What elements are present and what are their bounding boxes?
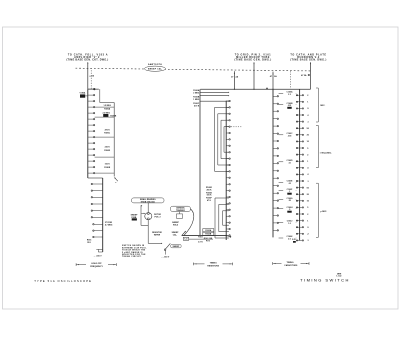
wiper arrow wafer 1 xyxy=(114,177,116,179)
wire - nested link B2 xyxy=(218,204,220,231)
switch contact 5-6 xyxy=(296,127,299,129)
label sweep box xyxy=(171,244,182,247)
switch contact 1-6 xyxy=(88,118,94,120)
svg-text:POS. 2: POS. 2 xyxy=(154,216,160,218)
svg-text:C-in: C-in xyxy=(184,239,188,241)
svg-text:POT.: POT. xyxy=(206,240,211,242)
node - sweep calibration tie point oval xyxy=(145,66,166,71)
switch contact 3-8 xyxy=(226,145,229,147)
svg-text:.01: .01 xyxy=(288,162,291,164)
svg-text:1.0: 1.0 xyxy=(288,223,291,225)
wire - nested link 4 xyxy=(223,127,225,153)
svg-text:μ SEC.: μ SEC. xyxy=(320,211,327,213)
switch contact 4-1 xyxy=(273,95,277,97)
svg-text:TIMING: TIMING xyxy=(210,262,217,264)
svg-text:.25: .25 xyxy=(288,200,291,202)
switch contact 3-14 xyxy=(226,183,229,185)
resistor R180B xyxy=(103,114,108,117)
resistor R162A box xyxy=(203,229,214,232)
switch contact 5-10 xyxy=(296,154,299,156)
switch contact 5-8 xyxy=(296,140,299,142)
resistor R162B box xyxy=(203,232,214,235)
switch contact 4-3 xyxy=(273,110,277,112)
resistor R160B feeder xyxy=(200,95,229,97)
switch contact 1-13 xyxy=(88,160,94,162)
switch contact 3-6 xyxy=(226,132,229,134)
svg-text:→ -150 V: → -150 V xyxy=(93,256,102,258)
svg-text:47 K: 47 K xyxy=(207,199,212,202)
switch contact 1-8 xyxy=(88,130,94,132)
switch contact 1-2 xyxy=(88,94,94,96)
svg-text:100 K: 100 K xyxy=(206,195,212,197)
switch contact 1-4 xyxy=(88,106,94,108)
terminal block to V183A xyxy=(80,94,85,97)
svg-text:2.2 MEG: 2.2 MEG xyxy=(102,113,110,115)
switch contact 5-22 xyxy=(296,233,299,235)
wire - main horizontal bus xyxy=(200,88,310,90)
bracket - holdoff frequency xyxy=(76,264,86,266)
switch contact 3-16 xyxy=(226,196,229,198)
switch contact 3-10 xyxy=(226,158,229,160)
switch contact 5-21 xyxy=(296,226,299,228)
switch contact 4-15 xyxy=(273,200,277,202)
switch contact 1-7 xyxy=(88,124,94,126)
svg-text:.03: .03 xyxy=(288,183,291,185)
switch contact 4-7 xyxy=(273,140,277,142)
switch contact 3-19 xyxy=(226,215,229,217)
switch contact 3-11 xyxy=(226,164,229,166)
wire - left column feed from label xyxy=(87,62,89,89)
wire chain tap 5 xyxy=(95,172,115,174)
switch contact 5-2 xyxy=(296,101,299,103)
wire - grid feeder from middle label xyxy=(253,62,255,89)
switch contact 1-3 xyxy=(88,100,94,102)
svg-text:R180A: R180A xyxy=(104,107,111,110)
svg-text:TYPE 51A OSCILLOSCOPE: TYPE 51A OSCILLOSCOPE xyxy=(34,279,92,283)
switch wafer 5 stator line xyxy=(299,89,301,240)
switch contact 5-11 xyxy=(296,160,299,162)
switch contact 4-14 xyxy=(273,192,277,194)
switch contact 4-2 xyxy=(273,103,277,105)
switch contact 4-11 xyxy=(273,170,277,172)
wire - plate feeder from right label xyxy=(310,62,312,89)
svg-text:R162B: R162B xyxy=(205,234,212,236)
svg-text:4.7 MEG: 4.7 MEG xyxy=(105,223,113,226)
svg-text:TIMING CIRCUIT.: TIMING CIRCUIT. xyxy=(122,256,142,258)
switch contact 2-5 xyxy=(93,210,103,212)
switch contact 3-5 xyxy=(226,126,229,128)
switch contact 4-12 xyxy=(273,177,277,179)
switch contact 3-1 xyxy=(226,100,229,102)
switch contact 4-5 xyxy=(273,125,277,127)
svg-text:→ -150 V: → -150 V xyxy=(161,257,170,259)
switch contact 4-8 xyxy=(273,147,277,149)
bracket USEC range xyxy=(317,183,319,237)
svg-text:R162A: R162A xyxy=(205,229,212,232)
svg-text:1 MEG: 1 MEG xyxy=(193,99,199,101)
wire - nested link 1 xyxy=(214,107,216,171)
switch contact 5-16 xyxy=(296,193,299,195)
resistor R160C feeder xyxy=(200,100,229,102)
svg-text:R180B: R180B xyxy=(110,116,117,118)
switch contact 3-15 xyxy=(226,190,229,192)
node - contact on plate feeder xyxy=(308,74,309,75)
switch contact 5-14 xyxy=(296,180,299,182)
timing resistor chain rail xyxy=(113,103,115,177)
svg-text:V183A: V183A xyxy=(80,92,86,95)
switch contact 3-13 xyxy=(226,177,229,179)
label - small reading box xyxy=(132,198,165,203)
resistor R160A feeder xyxy=(200,91,229,93)
svg-text:(TIME BASE GEN. DWG.): (TIME BASE GEN. DWG.) xyxy=(234,59,271,62)
wire - shaft to lever xyxy=(148,242,162,244)
svg-text:SEC.: SEC. xyxy=(320,105,325,107)
node - bus end dot xyxy=(226,235,227,236)
switch contact 4-19 xyxy=(273,229,277,231)
wire chain tap 1 xyxy=(95,106,115,108)
switch contact 5-15 xyxy=(296,187,299,189)
wire - wafer1 to wafer2 link xyxy=(88,177,103,179)
switch contact 5-20 xyxy=(296,220,299,222)
svg-text:WIPER: WIPER xyxy=(154,234,161,236)
svg-text:100 K: 100 K xyxy=(105,164,111,166)
wire - lever to -150 xyxy=(164,250,166,254)
switch contact 3-2 xyxy=(226,106,229,108)
switch shaft circle SW160 xyxy=(145,213,152,220)
switch contact 5-19 xyxy=(296,213,299,215)
switch wafer 2 stator line xyxy=(102,178,104,252)
switch contact 4-18 xyxy=(273,222,277,224)
switch contact 5-12 xyxy=(296,167,299,169)
switch contact 5-3 xyxy=(296,107,299,109)
switch contact 3-21 xyxy=(226,228,229,230)
switch contact 4-16 xyxy=(273,207,277,209)
switch wafer 1 rotor line xyxy=(87,89,89,178)
node - bus junction D xyxy=(266,88,267,89)
switch wafer 3 stator line xyxy=(225,101,227,240)
wire - dashed +225V distribution line xyxy=(76,68,311,71)
switch contact 3-17 xyxy=(226,202,229,204)
node - bus junction A xyxy=(234,89,235,90)
svg-text:SAWTOOTH: SAWTOOTH xyxy=(148,63,162,66)
wire - dashed stub right cluster xyxy=(289,71,291,89)
switch contact 3-20 xyxy=(226,222,229,224)
switch lever lower xyxy=(165,243,170,249)
bracket - timing capacitors xyxy=(273,263,282,265)
svg-text:TIMING SWITCH: TIMING SWITCH xyxy=(300,277,350,282)
svg-text:(TIME BASE GEN. DWG.): (TIME BASE GEN. DWG.) xyxy=(290,59,326,62)
svg-text:.003: .003 xyxy=(288,135,292,137)
wire - wiper arrow into shaft xyxy=(141,212,144,214)
switch contact 1-1 xyxy=(88,88,94,90)
switch contact 2b-1 xyxy=(94,223,103,225)
switch contact 5-17 xyxy=(296,200,299,202)
svg-text:470 K: 470 K xyxy=(105,129,111,132)
wire chain tap 4 xyxy=(95,156,115,158)
svg-text:CAPACITORS: CAPACITORS xyxy=(284,264,298,267)
svg-text:1.5 MEG: 1.5 MEG xyxy=(103,105,111,107)
svg-text:R180C: R180C xyxy=(104,133,111,135)
switch contact 5-9 xyxy=(296,147,299,149)
svg-text:≈ MILLISEC.: ≈ MILLISEC. xyxy=(320,152,332,155)
switch contact 5-23 xyxy=(296,239,299,241)
switch contact 2-6 xyxy=(93,216,103,218)
node - bus junction B xyxy=(253,89,254,90)
svg-text:R161: R161 xyxy=(198,236,203,238)
svg-text:2 MEG: 2 MEG xyxy=(193,93,199,95)
switch contact 1-14 xyxy=(88,166,94,168)
svg-text:4.7 K: 4.7 K xyxy=(198,241,203,244)
wire - wafer2 bottom xyxy=(98,251,102,253)
switch contact 4-4 xyxy=(273,118,277,120)
switch contact 4-10 xyxy=(273,162,277,164)
wire - dashed wiper stub wafer3 xyxy=(231,126,243,128)
switch contact 4-6 xyxy=(273,133,277,135)
wire - nested link 2 xyxy=(217,114,219,165)
svg-text:CAL.: CAL. xyxy=(173,233,178,236)
svg-text:R180D: R180D xyxy=(104,150,111,152)
switch contact 3-22 xyxy=(226,234,229,236)
svg-text:TRIMMER: TRIMMER xyxy=(176,210,185,212)
svg-text:15 K: 15 K xyxy=(87,242,92,244)
svg-text:FREQUENCY: FREQUENCY xyxy=(90,266,103,268)
svg-text:220 K: 220 K xyxy=(105,147,111,149)
svg-text:HOLD OFF: HOLD OFF xyxy=(91,263,102,265)
switch contact 1-12 xyxy=(88,154,94,156)
switch contact 1-15 xyxy=(88,172,94,174)
wire - right stator feed xyxy=(272,89,274,237)
wire chain tap 2 xyxy=(95,116,115,118)
switch contact 3-7 xyxy=(226,138,229,140)
wire - dashed stub left column xyxy=(90,70,92,88)
wire - nested link 3 xyxy=(220,120,222,158)
switch contact 5-4 xyxy=(296,114,299,116)
switch contact 3-18 xyxy=(226,209,229,211)
svg-text:5-25: 5-25 xyxy=(292,239,296,241)
wire - shaft left L link xyxy=(140,205,142,225)
svg-text:SWEEP CAL: SWEEP CAL xyxy=(148,68,163,71)
capacitor C-in box xyxy=(183,237,188,240)
wire - cin to resistors xyxy=(189,238,213,240)
switch contact 1-10 xyxy=(88,142,94,144)
node - junction on left tie xyxy=(94,88,96,90)
timing resistor chain connector xyxy=(99,89,101,102)
bracket SEC range xyxy=(317,88,319,122)
svg-text:SWEEP: SWEEP xyxy=(172,246,180,248)
wire - shaft down xyxy=(147,220,149,244)
switch contact 2-1 xyxy=(93,183,103,185)
terminal blob left of circle xyxy=(132,218,137,220)
svg-text:TIMING: TIMING xyxy=(287,262,294,264)
switch contact 2-4 xyxy=(93,203,103,205)
node - bus junction C xyxy=(272,89,273,90)
svg-text:2.0: 2.0 xyxy=(288,239,291,241)
trimmer pad box xyxy=(177,214,183,218)
switch contact 5-5 xyxy=(296,121,299,123)
wire - nested link B3 xyxy=(222,211,224,225)
switch contact 2b-2 xyxy=(94,230,103,232)
switch contact 2b-3 xyxy=(94,236,103,238)
bracket MILLISEC range xyxy=(317,125,319,167)
switch contact 5-13 xyxy=(296,173,299,175)
svg-text:HOLD: HOLD xyxy=(173,224,179,226)
wire chain tap 3 xyxy=(95,136,115,138)
switch contact 4-13 xyxy=(273,185,277,187)
switch lever upper xyxy=(182,231,186,236)
switch contact 2-3 xyxy=(93,196,103,198)
wire - nested link B1 xyxy=(214,198,216,238)
wire - knob box to shaft xyxy=(147,203,149,213)
svg-text:RESISTORS: RESISTORS xyxy=(207,265,219,267)
switch contact 5-1 xyxy=(296,94,299,96)
switch contact 3-3 xyxy=(226,113,229,115)
wire - bottom bus middle xyxy=(182,235,227,237)
switch contact 3-4 xyxy=(226,119,229,121)
switch contact 1-11 xyxy=(88,148,94,150)
switch contact 3-9 xyxy=(226,151,229,153)
svg-text:(TIME BASE GEN. CKT. DWG.): (TIME BASE GEN. CKT. DWG.) xyxy=(66,59,108,62)
switch contact 5-7 xyxy=(296,134,299,136)
svg-text:470 K: 470 K xyxy=(194,105,200,108)
switch contact 4-9 xyxy=(273,155,277,157)
svg-text:47 2A: 47 2A xyxy=(301,74,307,77)
wire - middle feeder R176 to dashed line xyxy=(233,71,235,89)
switch contact 4-17 xyxy=(273,215,277,217)
switch contact 3-12 xyxy=(226,170,229,172)
switch contact 1-5 xyxy=(88,112,94,114)
svg-text:+225: +225 xyxy=(89,75,95,77)
bracket - timing resistors xyxy=(193,263,204,265)
switch contact 5-18 xyxy=(296,206,299,208)
wire - middle left bus xyxy=(199,89,201,235)
switch contact 2-2 xyxy=(93,190,103,192)
wire - left column top tie xyxy=(88,88,99,90)
wire - right cluster feeder to dashed line xyxy=(272,72,274,90)
svg-text:250 K: 250 K xyxy=(206,189,212,191)
svg-text:3.3: 3.3 xyxy=(288,94,291,96)
switch contact 1-9 xyxy=(88,136,94,138)
mechanical link curve xyxy=(184,209,194,236)
svg-text:R180E: R180E xyxy=(104,167,111,169)
label ceramic trimmer box xyxy=(170,206,190,211)
